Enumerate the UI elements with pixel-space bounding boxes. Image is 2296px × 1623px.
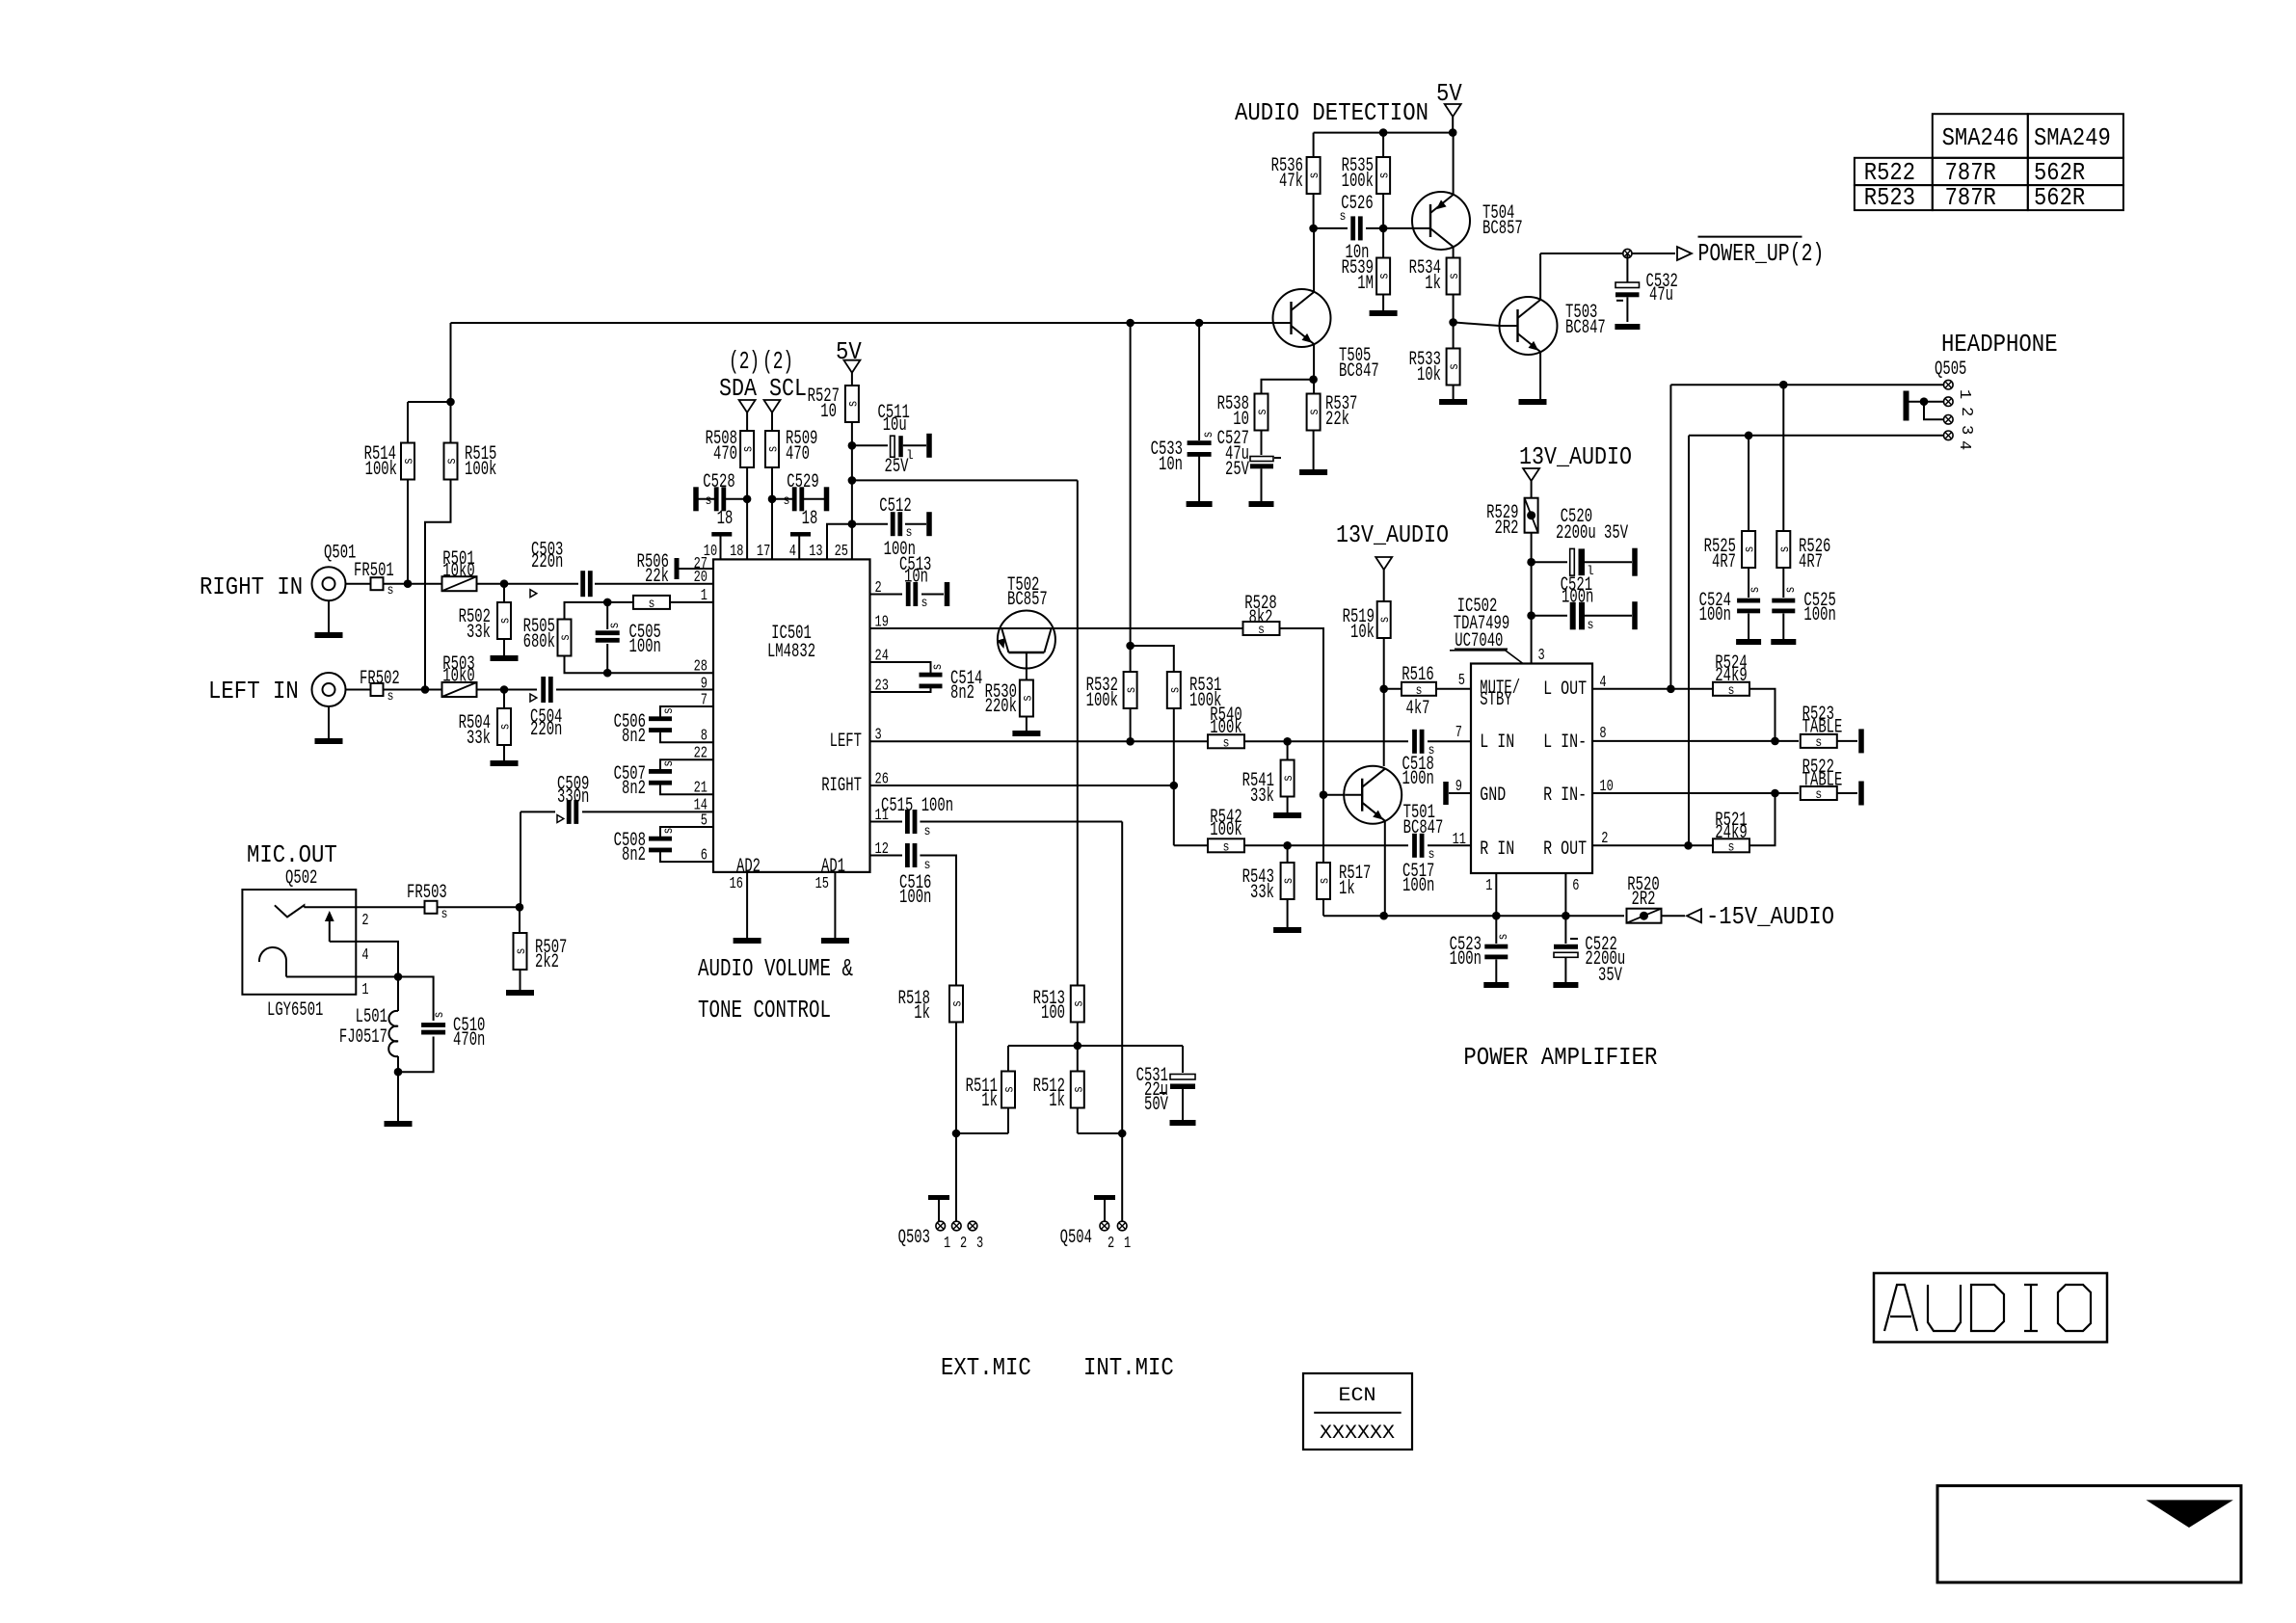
resistor R517 (1317, 863, 1330, 899)
jack pin2 wire (304, 906, 424, 908)
junction R543 top (1283, 841, 1292, 850)
junction R516 node (1379, 685, 1388, 694)
svg-text:47k: 47k (1279, 171, 1303, 193)
wire C509 column (520, 811, 521, 907)
junction R523 row (1771, 737, 1779, 746)
junction C511 (848, 441, 857, 450)
ground (1187, 501, 1213, 507)
svg-text:220n: 220n (530, 719, 562, 741)
svg-text:s: s (1377, 273, 1393, 279)
junction R531 bottom (1170, 782, 1179, 790)
svg-text:EXT.MIC: EXT.MIC (941, 1353, 1031, 1382)
junction rail to R532 column (1126, 319, 1135, 328)
svg-text:C526: C526 (1341, 193, 1373, 215)
svg-text:R OUT: R OUT (1543, 838, 1587, 861)
wire R514 bottom (407, 477, 409, 584)
svg-text:25V: 25V (1225, 459, 1249, 481)
svg-text:2R2: 2R2 (1495, 518, 1519, 540)
svg-text:ECN: ECN (1339, 1385, 1376, 1407)
svg-text:INT.MIC: INT.MIC (1083, 1353, 1174, 1382)
svg-text:SMA249: SMA249 (2034, 123, 2111, 152)
svg-text:C515 100n: C515 100n (881, 795, 953, 817)
resistor R543 (1287, 845, 1289, 864)
svg-text:1: 1 (1955, 389, 1973, 399)
svg-text:AUDIO DETECTION: AUDIO DETECTION (1235, 98, 1428, 127)
wire pin24 to cap (870, 662, 931, 673)
wire R524 to R523 row (1749, 689, 1775, 741)
svg-text:s: s (1167, 687, 1183, 694)
terminator above pin 18 (711, 532, 732, 537)
fusible link FR503 (425, 901, 438, 914)
resistor R540 (1208, 734, 1244, 748)
svg-text:C512: C512 (879, 495, 911, 518)
svg-text:3: 3 (1957, 425, 1975, 435)
capacitor C524 (1748, 568, 1749, 598)
svg-text:s: s (741, 446, 757, 453)
svg-text:470: 470 (713, 443, 737, 466)
svg-text:1k: 1k (981, 1090, 998, 1112)
svg-text:7: 7 (1455, 724, 1462, 742)
ground (821, 938, 849, 944)
capacitor C509 (567, 800, 572, 824)
svg-text:8n2: 8n2 (950, 682, 974, 705)
svg-text:100n: 100n (1402, 875, 1434, 897)
terminator bar Q505 (1904, 391, 1909, 421)
capacitor C523 (1484, 945, 1508, 949)
resistor R526 (1776, 531, 1790, 568)
wire C516 to R518 (920, 856, 956, 986)
svg-text:4: 4 (1955, 440, 1973, 450)
resistor R511 (1001, 1072, 1015, 1108)
svg-text:s: s (1783, 587, 1799, 594)
wire R502 top (503, 584, 505, 603)
svg-text:10k: 10k (1350, 622, 1375, 644)
resistor R505 (558, 620, 572, 656)
svg-text:220k: 220k (985, 696, 1017, 718)
junction R532 top (1126, 642, 1135, 651)
svg-text:8: 8 (701, 728, 707, 746)
capacitor C533 (1198, 323, 1200, 440)
junction R502 top (500, 579, 509, 588)
capacitor C523 (1495, 916, 1497, 944)
wire C510 top (398, 977, 434, 1022)
svg-text:s: s (921, 596, 928, 611)
svg-text:s: s (607, 623, 623, 629)
wire pin4 L OUT (1592, 688, 1713, 690)
svg-text:100k: 100k (365, 459, 397, 481)
svg-text:100n: 100n (1699, 604, 1731, 626)
resistor R515 (444, 443, 458, 480)
wire T503 emitter to ground (1539, 352, 1541, 399)
svg-text:s: s (924, 824, 931, 839)
junction T501 base (1320, 790, 1328, 799)
svg-text:2: 2 (361, 912, 368, 930)
svg-text:16: 16 (730, 875, 743, 893)
svg-text:24k9: 24k9 (1715, 665, 1747, 687)
capacitor C521 (1532, 615, 1567, 617)
svg-text:POWER AMPLIFIER: POWER AMPLIFIER (1463, 1043, 1657, 1072)
svg-text:4R7: 4R7 (1799, 551, 1823, 573)
wire L row (pin3) (870, 740, 1209, 742)
svg-text:TONE CONTROL: TONE CONTROL (698, 996, 831, 1024)
svg-text:100n: 100n (629, 636, 661, 658)
resistor R518 (949, 986, 963, 1023)
svg-text:s: s (1777, 546, 1793, 553)
capacitor C532 polarized (1626, 253, 1628, 282)
fusible resistor R529 (1525, 498, 1538, 533)
capacitor C525 (1782, 568, 1784, 598)
wire R505 bottom (565, 655, 714, 673)
jack hook contact (259, 947, 286, 962)
svg-text:s: s (1318, 878, 1333, 885)
svg-text:8n2: 8n2 (622, 844, 646, 866)
wire R542 row (1174, 844, 1208, 846)
svg-text:s: s (514, 948, 529, 955)
svg-text:21: 21 (694, 780, 707, 798)
junction R512/int (1118, 1130, 1127, 1138)
svg-text:s: s (1743, 546, 1758, 553)
capacitor C514 (920, 673, 943, 678)
svg-text:1k: 1k (914, 1002, 930, 1024)
transistor T504 BC857 (1412, 192, 1470, 250)
resistor R531 (1167, 672, 1181, 708)
svg-text:680k: 680k (523, 631, 555, 653)
svg-text:-15V_AUDIO: -15V_AUDIO (1706, 902, 1834, 931)
svg-text:s: s (1447, 273, 1462, 279)
svg-text:11: 11 (1453, 831, 1466, 849)
connector Q503 EXT MIC (928, 1195, 949, 1200)
svg-text:100k: 100k (1086, 690, 1118, 712)
junction C505 top (603, 599, 612, 607)
svg-text:s: s (661, 707, 677, 714)
svg-text:100k: 100k (1210, 717, 1241, 739)
resistor R507 (514, 933, 527, 970)
wire R514 column (407, 402, 409, 445)
junction C521 (1527, 611, 1535, 620)
resistor R534 (1447, 258, 1460, 295)
svg-text:s: s (766, 446, 782, 453)
capacitor C512 (891, 512, 895, 536)
svg-text:R IN: R IN (1480, 838, 1514, 861)
svg-text:s: s (1124, 687, 1139, 694)
svg-text:RIGHT: RIGHT (821, 775, 862, 797)
wire -15V row (1323, 915, 1624, 917)
svg-text:4R7: 4R7 (1712, 551, 1736, 573)
jack arrow (329, 915, 331, 942)
T503 collector (1539, 253, 1541, 300)
svg-text:s: s (387, 689, 394, 705)
bottom right box (1937, 1486, 2241, 1583)
svg-text:TABLE: TABLE (1802, 770, 1843, 792)
wire T502 base stem (1026, 652, 1028, 681)
svg-text:8k2: 8k2 (1249, 607, 1273, 629)
transistor T505 BC847 (1273, 289, 1331, 347)
wire T503 base (1454, 322, 1500, 326)
capacitor C520 polarized (1532, 561, 1567, 563)
svg-text:5: 5 (701, 811, 707, 830)
net POWER_UP arrow (1677, 247, 1692, 260)
svg-text:s: s (558, 634, 574, 641)
svg-text:2: 2 (1108, 1235, 1114, 1253)
svg-text:22k: 22k (645, 566, 669, 588)
svg-text:SCL: SCL (769, 374, 807, 403)
svg-text:18: 18 (717, 508, 734, 530)
svg-text:s: s (1223, 839, 1230, 855)
resistor R526 (1782, 385, 1784, 531)
svg-text:100k: 100k (1342, 171, 1374, 193)
wire R501 to C503 (477, 583, 579, 585)
resistor R536 (1313, 133, 1315, 157)
wire pin3 link (1924, 402, 1943, 420)
net -15V_AUDIO arrow (1687, 909, 1701, 922)
svg-text:470n: 470n (453, 1029, 485, 1051)
svg-text:2200u 35V: 2200u 35V (1556, 522, 1628, 545)
wire R521 to R522 row (1749, 793, 1775, 845)
svg-text:TABLE: TABLE (1802, 717, 1843, 739)
svg-text:100: 100 (1041, 1002, 1065, 1024)
svg-text:s: s (1281, 775, 1296, 782)
capacitor C510 (421, 1023, 445, 1027)
svg-text:Q502: Q502 (285, 867, 317, 890)
ground (1273, 812, 1301, 818)
resistor R513 (1071, 986, 1084, 1023)
resistor R519 (1377, 601, 1391, 638)
ground (1439, 399, 1467, 405)
svg-text:C529: C529 (787, 471, 818, 493)
svg-text:s: s (845, 401, 861, 408)
svg-text:s: s (1255, 409, 1270, 415)
junction C528/SDA (743, 495, 752, 504)
svg-text:47u: 47u (1649, 284, 1673, 306)
resistor R505 series box (633, 596, 670, 609)
svg-text:5: 5 (1458, 672, 1465, 690)
svg-text:BC847: BC847 (1339, 360, 1379, 383)
wire pin10 R IN- (1592, 792, 1799, 794)
junction C526 right (1379, 225, 1388, 233)
fusible link FR501 (371, 577, 384, 590)
capacitor C516 (870, 855, 903, 857)
svg-text:s: s (1071, 1000, 1086, 1007)
ground (385, 1121, 413, 1127)
svg-text:L OUT: L OUT (1543, 678, 1587, 701)
wire T505 emitter (1313, 344, 1315, 394)
wire R527 to pin25 (851, 422, 853, 559)
svg-text:Q503: Q503 (898, 1227, 930, 1249)
svg-text:(2): (2) (762, 347, 793, 376)
fusible link FR502 (371, 683, 384, 696)
capacitor C513 (906, 582, 911, 606)
svg-text:GND: GND (1480, 785, 1506, 807)
junction R526 top (1779, 381, 1788, 389)
junction C520 (1527, 558, 1535, 567)
wire R504 top (503, 690, 505, 710)
junction FR503 node (516, 903, 524, 912)
transistor T503 BC847 (1500, 297, 1558, 355)
R511 drop (1007, 1046, 1009, 1072)
wire R507 top (519, 907, 521, 934)
svg-text:100k: 100k (1210, 819, 1241, 841)
svg-text:s: s (1588, 618, 1594, 633)
svg-text:10n: 10n (1159, 454, 1183, 476)
svg-text:10: 10 (820, 401, 837, 423)
svg-text:1: 1 (944, 1235, 950, 1253)
resistor R539 (1376, 258, 1390, 295)
junction R525 top (1745, 432, 1753, 440)
wire headphone pin4 row (1689, 435, 1943, 437)
svg-text:100n: 100n (1450, 948, 1482, 971)
connector FR502 LEFT IN (312, 673, 346, 706)
svg-text:13V_AUDIO: 13V_AUDIO (1336, 520, 1449, 549)
wire top rail to T505 base (451, 322, 1273, 324)
svg-text:s: s (930, 664, 946, 671)
capacitor C506 (649, 716, 672, 721)
op-amp IC502 body (1471, 664, 1592, 874)
svg-text:1M: 1M (1357, 273, 1374, 295)
wire R502 bottom (503, 639, 505, 655)
svg-text:22k: 22k (1325, 409, 1349, 431)
svg-text:2R2: 2R2 (1632, 889, 1656, 911)
svg-text:RIGHT IN: RIGHT IN (200, 572, 303, 601)
svg-text:LEFT IN: LEFT IN (208, 677, 299, 705)
svg-text:3: 3 (976, 1235, 983, 1253)
svg-text:33k: 33k (1250, 882, 1274, 904)
svg-text:4: 4 (361, 946, 368, 965)
wire FR502 to R503 (384, 689, 442, 691)
junction C526 left (1309, 225, 1318, 233)
wire IC501 pin16 ground (746, 872, 748, 938)
resistor R524 (1713, 682, 1749, 696)
inductor L501 (397, 977, 399, 1012)
jack contact (275, 905, 305, 917)
junction R OUT (1684, 841, 1693, 850)
wire mic vertical 1 (1077, 480, 1079, 985)
resistor R532 (1130, 646, 1132, 673)
wire C504 to IC501 pin9 (556, 689, 713, 691)
capacitor C527 polarized (1261, 431, 1263, 456)
svg-text:3: 3 (1538, 647, 1545, 665)
junction C505 bottom (603, 669, 612, 678)
svg-text:s: s (1307, 173, 1322, 179)
ground (491, 760, 519, 766)
wire C507 top (660, 759, 713, 769)
resistor R514 (401, 443, 414, 480)
ground (1299, 469, 1327, 475)
svg-text:13V_AUDIO: 13V_AUDIO (1519, 442, 1632, 471)
capacitor C513 (870, 594, 903, 596)
net SDA arrow (739, 400, 756, 412)
svg-text:15: 15 (815, 875, 829, 893)
wire C503 to IC501 pin20 (595, 583, 713, 585)
svg-text:FJ0517: FJ0517 (339, 1026, 387, 1049)
fusible resistor R503 (442, 682, 477, 697)
svg-text:2: 2 (960, 1235, 967, 1253)
wire T501 emitter down (1384, 821, 1386, 916)
junction C529/SCL (768, 495, 777, 504)
svg-text:20: 20 (694, 569, 707, 587)
resistor R542 (1208, 838, 1244, 852)
wire R507 bottom (520, 970, 521, 990)
resistor R541 (1281, 760, 1295, 797)
svg-text:100n: 100n (899, 887, 931, 909)
wire T504 emitter (1453, 247, 1455, 258)
wire T504 base (1383, 227, 1413, 229)
svg-text:33k: 33k (467, 622, 491, 644)
wire Q to FR502 (346, 689, 371, 691)
svg-text:s: s (387, 583, 394, 599)
svg-text:Q501: Q501 (324, 543, 356, 565)
junction 5V stem (1449, 128, 1457, 137)
connector Q505 headphone jack (1944, 380, 1954, 389)
fusible resistor R520 (1627, 909, 1662, 923)
wire top rail vertical (450, 323, 452, 402)
pin13 stub (827, 524, 852, 560)
svg-text:10k: 10k (1417, 364, 1441, 386)
junction R514/R515 top (446, 398, 455, 407)
capacitor C511 polarized (852, 444, 888, 446)
wire T501 base lead (1323, 794, 1344, 796)
svg-text:s: s (441, 907, 448, 922)
svg-text:10u: 10u (883, 414, 907, 437)
wire R515 top (450, 402, 452, 445)
svg-text:1: 1 (1485, 877, 1492, 895)
resistor R502 (497, 602, 511, 639)
wire C507 bottom (660, 785, 713, 794)
wire C508 bottom (660, 852, 713, 862)
svg-text:10k0: 10k0 (442, 666, 474, 688)
ground (1249, 501, 1274, 507)
svg-text:s: s (444, 458, 460, 465)
capacitor C508 (649, 837, 672, 841)
bottom right triangle (2146, 1500, 2233, 1528)
svg-text:L IN: L IN (1480, 732, 1514, 754)
svg-text:STBY: STBY (1480, 689, 1511, 711)
svg-text:POWER_UP(2): POWER_UP(2) (1698, 239, 1825, 268)
svg-text:LM4832: LM4832 (767, 641, 815, 663)
svg-text:4: 4 (789, 543, 796, 561)
svg-text:6: 6 (1572, 877, 1579, 895)
wire C509 left (521, 811, 555, 812)
svg-text:R523: R523 (1864, 183, 1915, 212)
svg-text:L501: L501 (356, 1006, 387, 1028)
resistor R522 (1801, 786, 1837, 800)
svg-text:s: s (1002, 1086, 1018, 1093)
svg-text:470: 470 (786, 443, 810, 466)
resistor R535 (1376, 157, 1390, 194)
junction R513 bottom (1074, 1042, 1082, 1051)
svg-text:L IN-: L IN- (1543, 732, 1587, 754)
wire R528 to T501 base column (1280, 628, 1324, 864)
svg-text:18: 18 (730, 543, 743, 561)
wire int mic bottom (1078, 1132, 1122, 1134)
svg-text:562R: 562R (2034, 183, 2085, 212)
wire pin19 row (870, 627, 1244, 629)
junction R515/LEFT (421, 685, 430, 694)
svg-text:s: s (1071, 1086, 1086, 1093)
resistor R523 (1801, 734, 1837, 748)
capacitor C512 (852, 523, 888, 525)
junction L OUT (1667, 685, 1675, 694)
resistor R541 (1287, 741, 1289, 760)
svg-text:1k: 1k (1425, 273, 1441, 295)
junction R504 top (500, 685, 509, 694)
junction mic feed (848, 476, 857, 485)
svg-text:4k7: 4k7 (1406, 698, 1430, 720)
svg-text:17: 17 (757, 543, 770, 561)
mid row (1008, 1045, 1183, 1047)
junction pin2/pin3 (1920, 397, 1929, 406)
svg-text:Q504: Q504 (1060, 1227, 1092, 1249)
svg-text:220n: 220n (531, 551, 563, 573)
